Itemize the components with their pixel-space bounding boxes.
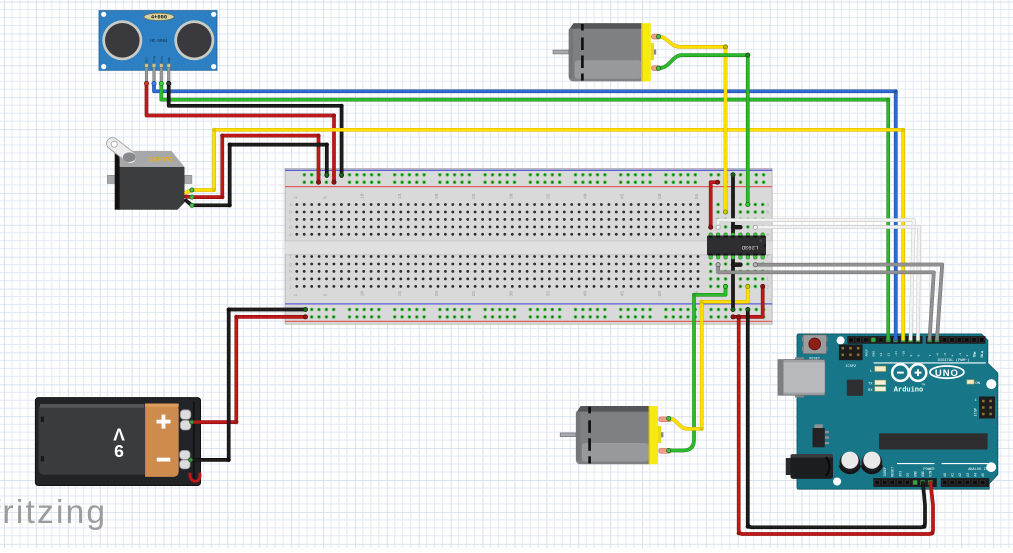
svg-text:25: 25 xyxy=(471,291,477,297)
A1 reset button xyxy=(802,337,805,342)
A1 power header xyxy=(873,478,937,487)
svg-text:4+000: 4+000 xyxy=(151,15,167,21)
A1 ICSP header xyxy=(974,397,995,419)
wire: white IC input2 to Arduino pin 8 xyxy=(755,227,919,339)
svg-text:Arduino: Arduino xyxy=(894,387,923,395)
svg-text:A0: A0 xyxy=(943,473,947,477)
wire bendpoint dots xyxy=(212,89,934,535)
A1 analog pin labels xyxy=(943,473,985,477)
A1 power jack xyxy=(786,454,833,479)
DC motor M2 (top) xyxy=(553,23,661,81)
svg-text:POWER: POWER xyxy=(923,468,935,472)
svg-text:5V: 5V xyxy=(906,473,910,477)
svg-text:10: 10 xyxy=(360,291,366,297)
svg-text:GND: GND xyxy=(914,471,918,477)
wire: motor M3 terminal 2 (green) to breadboard row j xyxy=(669,286,726,450)
svg-text:35: 35 xyxy=(545,291,551,297)
breadboard column numbers xyxy=(293,193,737,296)
svg-text:12: 12 xyxy=(887,353,891,357)
svg-text:50: 50 xyxy=(657,193,663,199)
svg-text:1: 1 xyxy=(293,196,299,199)
svg-text:A5: A5 xyxy=(981,473,985,477)
svg-text:20: 20 xyxy=(434,193,440,199)
svg-text:DIGITAL (PWM~): DIGITAL (PWM~) xyxy=(938,358,970,363)
svg-text:fritzing: fritzing xyxy=(0,494,107,531)
wire: black mini jumper row d xyxy=(733,225,740,229)
svg-text:VCC: VCC xyxy=(146,57,149,62)
wire: jumper bottom red rail to row j (red) xyxy=(733,286,763,317)
svg-text:RESET: RESET xyxy=(891,467,895,477)
wire: battery + (red) to breadboard bottom red rail xyxy=(192,317,306,422)
svg-text:~3: ~3 xyxy=(958,353,962,357)
svg-text:~11: ~11 xyxy=(894,351,898,357)
svg-text:25: 25 xyxy=(471,193,477,199)
A1 USB connector xyxy=(795,357,804,359)
A1 capacitors C1 C2 xyxy=(840,452,861,473)
A1 ANALOG IN silkscreen xyxy=(942,464,989,472)
wire: servo GND (black) to breadboard top blue rail xyxy=(186,145,327,206)
svg-text:ICSP: ICSP xyxy=(974,408,978,417)
svg-text:HC-SR04: HC-SR04 xyxy=(150,40,168,44)
A1 USB interface chip xyxy=(847,380,863,396)
A1 analog header xyxy=(941,478,990,487)
svg-text:V: V xyxy=(113,425,125,445)
wire: white IC input1 to Arduino pin 9 xyxy=(718,220,914,339)
wire: jumper red rail to IC pin16 column xyxy=(711,182,718,227)
svg-text:GND: GND xyxy=(168,57,171,62)
A1 ATmega328 chip xyxy=(879,433,988,449)
A1 voltage regulator xyxy=(813,424,830,447)
HC-SR04 pin legs xyxy=(145,67,148,83)
svg-text:5: 5 xyxy=(323,294,329,297)
wire: HC-SR04 Echo (green) to Arduino pin 12 xyxy=(161,83,888,339)
breadboard terminal-strip holes xyxy=(295,203,699,288)
9V battery BT1 xyxy=(35,398,200,486)
A1 DIGITAL silkscreen xyxy=(874,358,986,363)
A1 digital pin labels xyxy=(864,349,984,358)
svg-text:40: 40 xyxy=(583,291,589,297)
breadboard power rail holes (all green/connected) xyxy=(303,173,766,319)
IC U2 L293D motor driver xyxy=(707,233,766,259)
svg-text:A2: A2 xyxy=(958,473,962,477)
ultrasonic sensor U1 HC-SR04 xyxy=(99,11,217,84)
svg-text:10: 10 xyxy=(360,193,366,199)
DC motor M3 (bottom) xyxy=(560,406,671,464)
svg-text:1: 1 xyxy=(975,399,977,403)
wire: HC-SR04 GND (black) to breadboard top blue rail xyxy=(169,83,342,176)
svg-text:55: 55 xyxy=(694,193,700,199)
svg-text:40: 40 xyxy=(583,193,589,199)
battery red snap lead curl xyxy=(190,473,200,481)
wire: Arduino VIN (red) to bottom red rail xyxy=(739,317,933,534)
wire: jumper top blue rail to bottom blue rail (black, under IC) xyxy=(731,175,735,310)
svg-text:AREF: AREF xyxy=(864,349,868,357)
wire: motor M2 terminal 1 (yellow) to breadboard row b xyxy=(659,37,726,212)
A1 ICSP2 header xyxy=(839,344,863,360)
wire: battery - (black) to breadboard bottom blue rail xyxy=(191,310,306,460)
wire: gray IC input4 to Arduino pin 7 xyxy=(718,265,934,339)
svg-text:45: 45 xyxy=(620,193,626,199)
svg-text:2: 2 xyxy=(965,355,969,357)
wire: motor M3 terminal 1 (yellow) to breadboard row j xyxy=(669,286,748,428)
svg-text:j: j xyxy=(289,285,292,290)
svg-text:15: 15 xyxy=(397,193,403,199)
breadboard BB1 xyxy=(285,169,772,325)
svg-text:ON: ON xyxy=(975,382,980,386)
Arduino UNO A1 xyxy=(778,334,998,489)
wire: black mini jumper row g xyxy=(733,263,740,267)
A1 digital header (7..0) xyxy=(926,336,986,344)
svg-text:~5: ~5 xyxy=(943,353,947,357)
A1 power pin labels xyxy=(883,467,933,477)
svg-text:15: 15 xyxy=(397,291,403,297)
svg-text:30: 30 xyxy=(508,291,514,297)
servo motor M1 xyxy=(107,141,192,210)
A1 ON LED xyxy=(967,380,981,386)
svg-text:j: j xyxy=(767,285,770,290)
svg-text:Trig: Trig xyxy=(152,56,156,63)
svg-text:45: 45 xyxy=(620,291,626,297)
svg-text:~10: ~10 xyxy=(902,351,906,357)
svg-text:13: 13 xyxy=(879,353,883,357)
svg-text:7: 7 xyxy=(928,355,932,357)
breadboard row letters xyxy=(289,204,769,290)
svg-text:A3: A3 xyxy=(966,473,970,477)
wire end caps and junctions xyxy=(144,35,764,463)
wire: servo V+ (red) to breadboard top red rail xyxy=(186,136,319,198)
A1 UNO oval xyxy=(930,366,964,378)
svg-text:ANALOG IN: ANALOG IN xyxy=(968,468,988,472)
svg-text:RX◀: RX◀ xyxy=(980,351,984,358)
A1 TX RX LEDs xyxy=(868,380,886,393)
svg-text:1: 1 xyxy=(293,294,299,297)
svg-text:GND: GND xyxy=(872,351,876,357)
svg-text:L293D: L293D xyxy=(741,244,758,251)
svg-text:TX▶: TX▶ xyxy=(973,351,977,358)
wire: servo signal (yellow) to Arduino pin 10 xyxy=(186,130,903,339)
A1 POWER silkscreen xyxy=(897,464,935,472)
wire: HC-SR04 Trig (blue) to Arduino pin 11 xyxy=(154,83,896,339)
wire: Arduino GND (black) to bottom blue rail xyxy=(748,310,925,528)
svg-text:9: 9 xyxy=(909,355,913,357)
wire: gray IC input3 to Arduino pin 6 xyxy=(755,265,942,340)
A1 Arduino logo xyxy=(892,364,926,381)
svg-text:TM: TM xyxy=(922,384,926,387)
svg-text:Echo: Echo xyxy=(159,56,163,63)
svg-text:20: 20 xyxy=(434,291,440,297)
svg-text:SERVO: SERVO xyxy=(148,156,173,163)
svg-text:3V3: 3V3 xyxy=(898,471,902,477)
svg-text:IOREF: IOREF xyxy=(883,467,887,477)
svg-text:RX: RX xyxy=(868,389,873,393)
svg-text:4: 4 xyxy=(950,355,954,357)
wire: motor M2 terminal 2 (green) to breadboard row a xyxy=(659,55,748,204)
svg-text:8: 8 xyxy=(916,355,920,357)
svg-text:30: 30 xyxy=(508,193,514,199)
svg-text:ICSP2: ICSP2 xyxy=(845,365,856,369)
svg-text:A4: A4 xyxy=(973,473,977,477)
breadboard connected (green) columns at IC xyxy=(709,203,765,289)
svg-text:TX: TX xyxy=(868,383,873,387)
svg-text:50: 50 xyxy=(657,291,663,297)
A1 L LED xyxy=(870,366,886,374)
svg-text:UNO: UNO xyxy=(935,368,959,379)
A1 digital header (AREF..8) xyxy=(847,336,922,344)
wire: HC-SR04 VCC (red) to breadboard top red rail xyxy=(147,83,335,182)
svg-text:A1: A1 xyxy=(951,473,955,477)
svg-text:5: 5 xyxy=(323,196,329,199)
svg-text:~6: ~6 xyxy=(935,353,939,357)
svg-text:35: 35 xyxy=(545,193,551,199)
